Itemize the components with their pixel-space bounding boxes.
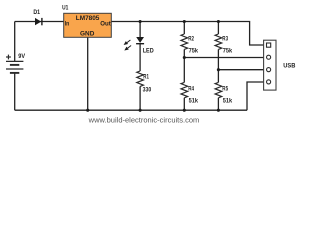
svg-text:9V: 9V (18, 53, 25, 60)
svg-text:www.build-electronic-circuits.: www.build-electronic-circuits.com (88, 115, 200, 124)
svg-text:51k: 51k (223, 98, 233, 105)
svg-text:51k: 51k (189, 98, 199, 105)
svg-text:GND: GND (80, 31, 95, 38)
svg-text:Out: Out (100, 21, 111, 28)
svg-text:R4: R4 (188, 85, 194, 92)
svg-text:In: In (65, 21, 70, 28)
svg-text:USB: USB (283, 63, 295, 70)
svg-text:75k: 75k (223, 47, 233, 54)
svg-text:R2: R2 (188, 35, 194, 42)
svg-text:330: 330 (143, 86, 152, 93)
svg-text:U1: U1 (62, 4, 68, 11)
svg-text:R3: R3 (222, 35, 228, 42)
svg-text:D1: D1 (33, 9, 40, 16)
svg-text:LM7805: LM7805 (76, 15, 100, 22)
svg-text:75k: 75k (189, 47, 199, 54)
svg-text:LED: LED (143, 48, 154, 55)
svg-text:R1: R1 (143, 73, 149, 80)
svg-text:R5: R5 (222, 85, 228, 92)
